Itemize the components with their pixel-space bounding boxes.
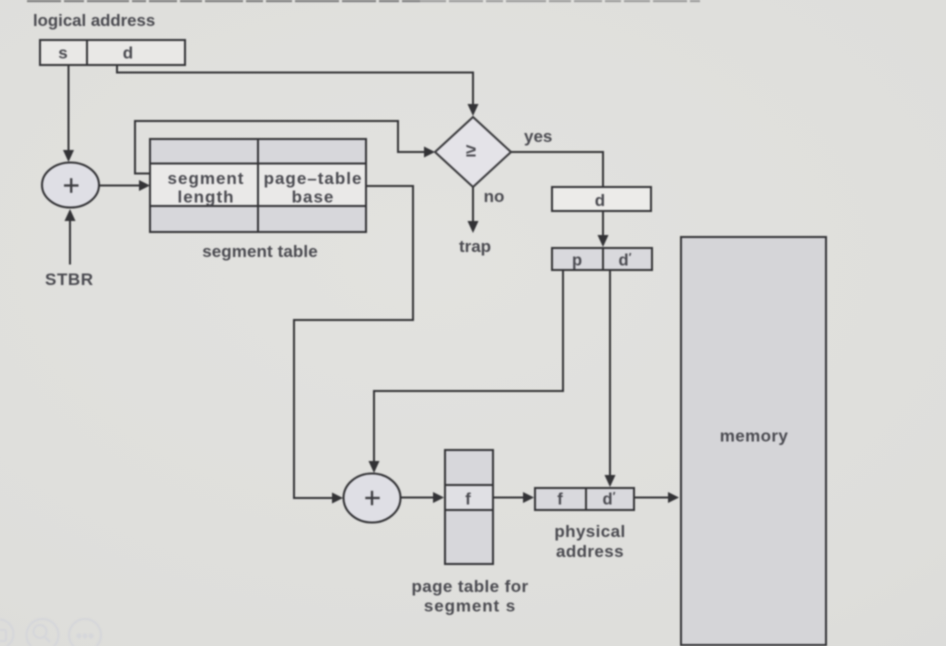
segment table bbox=[150, 139, 366, 232]
wire f|d' to memory bbox=[634, 497, 669, 499]
svg-text:STBR: STBR bbox=[45, 270, 94, 289]
arrowhead into memory bbox=[668, 492, 679, 503]
register s|d bbox=[40, 40, 185, 65]
svg-text:s: s bbox=[58, 44, 67, 63]
svg-text:d: d bbox=[595, 191, 605, 210]
svg-text:base: base bbox=[292, 188, 335, 207]
label page table for segment s bbox=[411, 577, 528, 616]
arrowhead into adder2 top bbox=[369, 461, 380, 473]
svg-text:physical: physical bbox=[554, 522, 625, 541]
svg-text:f: f bbox=[557, 491, 563, 509]
svg-text:yes: yes bbox=[524, 127, 552, 146]
arrowhead into comparator top bbox=[468, 104, 479, 116]
wire s to adder bbox=[68, 65, 70, 151]
wire d to p|d' register bbox=[602, 211, 604, 236]
svg-text:trap: trap bbox=[459, 237, 491, 256]
wire adder to segment table bbox=[99, 185, 140, 187]
memory box bbox=[681, 237, 826, 645]
arrowhead into p|d' bbox=[598, 235, 609, 247]
player overlay icon lock (faint) bbox=[0, 620, 14, 646]
wire page table to f|d' bbox=[493, 497, 524, 499]
arrowhead into adder2 left bbox=[332, 493, 343, 504]
arrowhead into comparator left bbox=[424, 147, 435, 158]
arrowhead into page table bbox=[433, 492, 444, 503]
cropped title bar top edge bbox=[27, 0, 700, 2]
comparator diamond GE bbox=[435, 117, 511, 187]
svg-text:d: d bbox=[123, 44, 133, 63]
svg-text:memory: memory bbox=[720, 427, 789, 446]
svg-text:f: f bbox=[465, 491, 471, 509]
svg-text:segment s: segment s bbox=[424, 597, 516, 616]
wire adder2 to page table bbox=[401, 497, 434, 499]
svg-text:segment: segment bbox=[168, 169, 245, 188]
arrowhead into adder bottom bbox=[65, 209, 76, 221]
svg-text:segment table: segment table bbox=[202, 242, 318, 261]
wire page-table base to adder2 bbox=[294, 186, 413, 498]
player overlay icon search (faint) bbox=[27, 619, 59, 646]
page table for segment s bbox=[445, 450, 493, 564]
arrowhead into adder top bbox=[63, 150, 74, 162]
wire d to comparator bbox=[117, 65, 473, 105]
svg-text:no: no bbox=[484, 187, 505, 206]
svg-text:≥: ≥ bbox=[466, 140, 476, 161]
svg-text:address: address bbox=[556, 542, 624, 561]
wire yes branch to d register bbox=[511, 152, 603, 187]
wire segment length to comparator bbox=[135, 121, 425, 174]
wire STBR up to adder bbox=[69, 220, 71, 265]
register p|d' bbox=[552, 248, 652, 270]
label physical address bbox=[554, 522, 625, 561]
svg-text:page table for: page table for bbox=[411, 577, 528, 596]
svg-text:page–table: page–table bbox=[264, 169, 363, 188]
player overlay icon more (faint) bbox=[69, 619, 101, 646]
register d bbox=[552, 187, 651, 211]
arrowhead trap bbox=[468, 221, 479, 233]
wire d' to physical address bbox=[609, 270, 611, 476]
adder2 circle + bbox=[344, 474, 401, 523]
arrowhead into segment table bbox=[139, 180, 150, 191]
adder circle + (STBR) bbox=[42, 163, 99, 208]
arrowhead into f|d' left bbox=[523, 492, 534, 503]
arrowhead into f|d' bbox=[605, 475, 616, 487]
register f|d' physical address bbox=[535, 488, 634, 510]
svg-text:p: p bbox=[572, 252, 582, 270]
wire no branch to trap bbox=[472, 187, 474, 222]
svg-text:logical address: logical address bbox=[33, 11, 155, 30]
wire p to adder2 bbox=[374, 270, 563, 462]
svg-text:length: length bbox=[178, 188, 235, 207]
